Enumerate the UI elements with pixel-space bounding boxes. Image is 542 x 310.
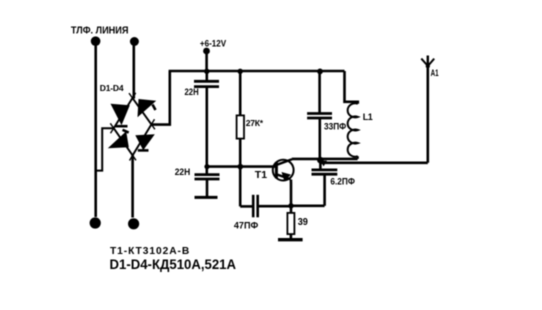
svg-text:D1-D4: D1-D4	[100, 83, 124, 93]
svg-text:T1: T1	[255, 169, 267, 181]
svg-text:22Н: 22Н	[185, 87, 199, 98]
svg-text:22Н: 22Н	[175, 167, 191, 178]
svg-text:А1: А1	[431, 68, 439, 79]
svg-text:ТЛФ. ЛИНИЯ: ТЛФ. ЛИНИЯ	[71, 26, 129, 37]
svg-text:D1-D4-КД510А,521А: D1-D4-КД510А,521А	[110, 257, 237, 272]
svg-text:Т1-КТ3102А-В: Т1-КТ3102А-В	[110, 246, 190, 257]
svg-text:27К*: 27К*	[246, 118, 264, 128]
svg-text:L1: L1	[363, 112, 373, 122]
svg-text:47ПФ: 47ПФ	[234, 220, 258, 231]
svg-text:+6-12V: +6-12V	[200, 38, 226, 48]
svg-text:33ПФ: 33ПФ	[324, 122, 346, 132]
svg-text:6.2ПФ: 6.2ПФ	[330, 177, 355, 187]
svg-text:39: 39	[298, 217, 309, 228]
